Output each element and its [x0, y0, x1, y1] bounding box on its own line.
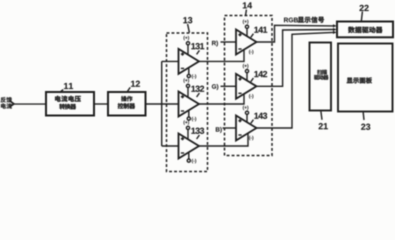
net RGB display signal label RGB显示信号	[284, 17, 324, 23]
op-amp U132	[179, 78, 205, 121]
op-amp U143	[236, 106, 267, 141]
block U23 display panel 显示面板	[338, 44, 393, 112]
wire U133 output to U143 inverting terminal	[199, 133, 248, 146]
label 11	[59, 83, 73, 93]
label U21 text 扫描 驱动器	[314, 70, 328, 80]
wire G output to data driver	[257, 28, 337, 86]
label 21	[319, 111, 328, 129]
block U12 operation controller 操作控制器	[108, 92, 146, 116]
node G input	[212, 84, 236, 90]
label 13	[183, 17, 192, 33]
op-amp U133	[179, 120, 205, 163]
op-amp U131	[179, 36, 205, 79]
wire bus stub to U133	[162, 145, 179, 147]
wire U12 to gamma block input bus	[146, 103, 179, 105]
block U21 scan driver 扫描驱动器	[310, 43, 332, 111]
block 13 gamma voltage generator (dashed)	[167, 33, 208, 172]
label U12 text 操作 控制器	[118, 96, 135, 109]
label U11 text 电流电压 转换器	[55, 96, 81, 110]
block U22 data driver 数据驱动器	[337, 22, 393, 38]
wire B output to data driver	[257, 31, 337, 128]
label 22	[360, 5, 369, 21]
block 14 output amplifiers (dashed)	[225, 16, 273, 156]
node feedback-current input label 反馈电流	[1, 97, 12, 109]
wire R output to data driver	[257, 24, 337, 42]
wire U11 to U12	[94, 103, 108, 105]
op-amp U141	[236, 20, 267, 55]
op-amp U142	[236, 64, 267, 99]
wire bus stub to U131	[162, 60, 179, 62]
label U22 text 数据驱动器	[348, 27, 382, 33]
wire input arrow into U11	[10, 101, 46, 107]
block U11 current-voltage converter 电流电压转换器	[46, 92, 94, 116]
wire input bus vertical	[161, 61, 163, 146]
label 12	[127, 81, 140, 93]
label 23	[361, 112, 370, 129]
label 14	[243, 2, 252, 15]
label U23 text 显示面板	[347, 77, 372, 83]
node R input	[212, 41, 236, 47]
wire U131 output to U141 inverting terminal	[199, 50, 244, 62]
wire U132 output to U142 inverting terminal	[199, 94, 244, 104]
node B input	[216, 127, 236, 133]
